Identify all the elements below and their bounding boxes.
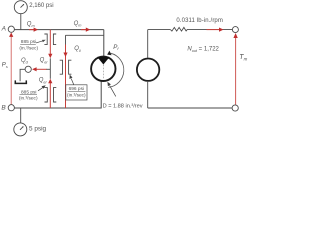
gauge G2 (5 psig) (14, 123, 27, 136)
leader arrow to orifice R1 (36, 40, 46, 43)
leader arrow from 696 box to orifice R2 (70, 75, 74, 85)
flow arrow Q_m first (29, 28, 38, 32)
svg-text:(in.³/sec): (in.³/sec) (19, 45, 38, 51)
node N1 (232, 27, 238, 33)
svg-text:2,160 psi: 2,160 psi (29, 3, 53, 9)
svg-text:(in.³/sec): (in.³/sec) (19, 95, 38, 101)
orifice R3 (885 psi lower) (45, 88, 57, 102)
orifice R2 (696 psi) (60, 60, 72, 74)
drain tap line (46, 68, 50, 70)
flow arrow Q_m second (81, 28, 90, 32)
load circle (right) (137, 58, 159, 80)
svg-text:0.0311 lb-in./rpm: 0.0311 lb-in./rpm (176, 18, 223, 24)
branch 1 lower red segment with up arrow (48, 79, 52, 108)
gauge G1 (2,160 psi) (14, 1, 27, 14)
wire: motor inlet riser (103, 30, 105, 57)
branch 2: internal leakage red line (63, 45, 67, 109)
motor M circle (91, 57, 115, 81)
drain port circle (25, 66, 31, 72)
reservoir (tank) (15, 80, 28, 83)
node A (8, 26, 14, 32)
node B (8, 105, 14, 111)
orifice R1 (885 psi) (44, 34, 56, 45)
wire: top wire from node A to motor inlet (14, 29, 104, 31)
svg-text:D = 1.88 in.³/rev: D = 1.88 in.³/rev (103, 104, 143, 110)
svg-text:696 psi: 696 psi (69, 86, 84, 92)
branch 1 mid segment (dark) (49, 58, 51, 79)
supply line P_s (red, arrow up toward A) (9, 32, 13, 104)
svg-text:5 psig: 5 psig (29, 126, 46, 133)
shaft bottom riser (147, 81, 149, 108)
drain flow arrow (red, pointing left) (32, 67, 46, 71)
gauge G1 stem (20, 14, 22, 30)
shaft top riser (147, 30, 149, 58)
damper (resistor zigzag) 0.0311 lb-in./rpm (170, 27, 187, 31)
motor triangle (flow in) (97, 57, 110, 65)
wire: inner wire to leakage branch (66, 34, 104, 36)
drain drop line to reservoir (20, 69, 25, 81)
wire: bottom right to node N2 (148, 107, 232, 109)
node N2 (232, 105, 238, 111)
gauge G2 stem (20, 108, 22, 123)
flow arrow at output (red) (207, 28, 224, 32)
label fraction 885 psi / (in.3/sec) first (19, 39, 38, 51)
branch 1: red drop from top wire with down arrow (48, 30, 52, 59)
leader arrow to orifice R3 (38, 85, 46, 91)
svg-text:885 psi: 885 psi (21, 39, 36, 45)
leader arrow from D label to motor (107, 82, 115, 97)
wire: damper to node N1 (187, 29, 232, 31)
wire: bottom wire from B to motor return (14, 81, 101, 108)
label fraction 885 psi / (in.3/sec) second (19, 89, 38, 101)
wire: top right from shaft to damper (148, 29, 171, 31)
svg-text:A: A (1, 25, 6, 32)
svg-text:(in.³/sec): (in.³/sec) (67, 93, 86, 99)
label box 696 psi / (in.3/sec) (66, 85, 87, 100)
rotation arc with arrowhead (107, 51, 124, 88)
motor internal dashed line (103, 65, 105, 80)
svg-text:B: B (1, 105, 6, 112)
torque arrow T_m (red, up) (233, 33, 237, 105)
